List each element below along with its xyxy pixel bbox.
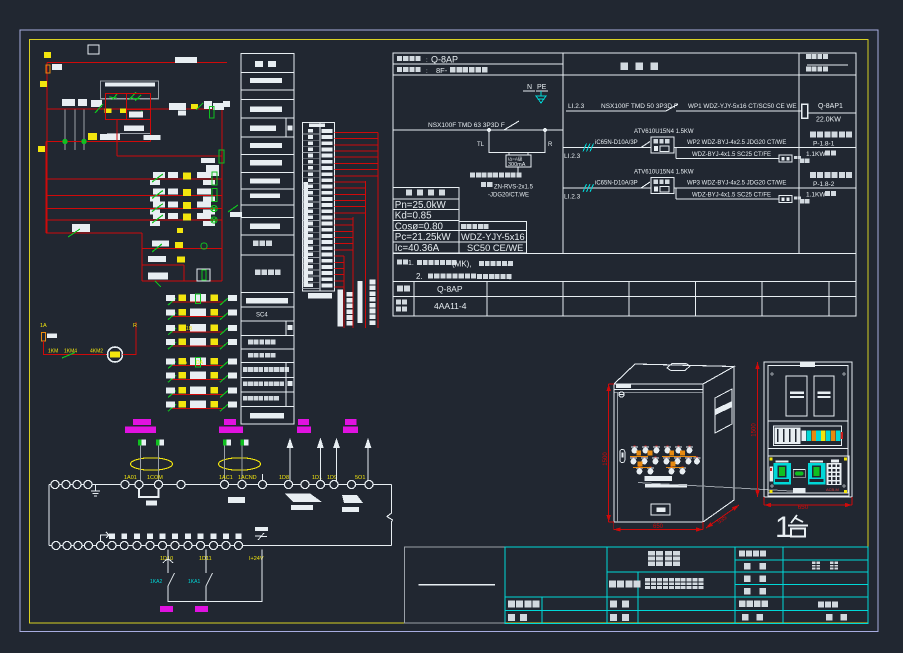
sub wire KA [168,550,262,602]
red box divider [125,93,127,119]
leader line [638,483,800,492]
legend bar5 [250,160,282,165]
switch QS1 pole A [64,109,66,150]
label design stage [739,551,766,557]
svg-text:ACB-M: ACB-M [826,487,839,492]
wire row8 [142,248,222,250]
U link group1 [139,489,159,498]
wire left red bus L1 [46,63,48,233]
cable tag text vertical 1 [347,292,353,326]
panel inner [768,366,848,494]
svg-text:WP2 WDZ-BYJ-4x2.5 JDG20 CT/WE: WP2 WDZ-BYJ-4x2.5 JDG20 CT/WE [687,140,786,146]
tag small yellow row7 [177,228,183,233]
label mid b [144,135,161,140]
wire red bus V1 [377,133,379,329]
legend bar7 [250,193,280,198]
svg-text:1500: 1500 [752,423,758,437]
load name AHU-1 [810,132,852,138]
svg-text:1B: 1B [186,326,193,332]
table bottom divider [486,282,488,317]
red box inner line [126,109,150,111]
calc box [393,188,526,253]
label 1AL [52,64,62,70]
label in box E1 [129,112,143,118]
svg-text:LI.2.3: LI.2.3 [564,194,581,201]
dim cabinet depth [706,505,739,528]
value org [818,602,838,608]
legend text spec [255,269,280,275]
residual relay box [506,155,531,167]
fuse link green [212,172,217,185]
legend subcolumn [285,118,287,137]
arrow bend sym [101,532,110,541]
din band inner [774,426,842,446]
cabinet front face [614,384,703,522]
terminal circles rail lower [52,542,243,550]
svg-text:1KM4: 1KM4 [64,349,77,355]
fuse in device box [202,270,206,280]
shunt wiring [489,130,545,155]
label page no [826,614,847,621]
bus rail upper [49,484,392,486]
node green row1 b [82,139,86,143]
svg-text:1500: 1500 [603,452,609,466]
fuse link green F1 [210,106,215,118]
label reviewed [508,614,527,621]
label right of bus [230,212,242,217]
cable tag text vertical 2 [369,280,375,325]
table bottom divider [562,282,564,317]
contact slash A3 [196,103,203,110]
terminal strip header [309,124,325,128]
hdr right col r2 [806,67,828,72]
wire WP1 a [566,110,666,112]
front seam 1 [614,388,703,390]
svg-text:22.0KW: 22.0KW [816,117,841,124]
quantity glyph tai [788,515,808,537]
wire row A [47,108,222,110]
svg-text:N: N [527,84,532,91]
contact slash fan feed [62,353,75,359]
terminal block 1 [156,440,164,446]
ground tick green [155,281,161,287]
wire drop row9 [183,265,185,281]
svg-text:1A: 1A [40,323,47,329]
value electrical [812,562,838,570]
wire fan right [123,322,137,355]
load name AHU-2 [810,172,852,178]
legend bar1 [250,78,282,83]
front top strip [616,384,631,389]
svg-text:1D11: 1D11 [199,556,212,562]
legend text fanctrl [243,382,284,387]
wire fan branch row 4 [172,345,224,347]
svg-text:4KM2: 4KM2 [90,349,103,355]
svg-text:1: 1 [775,511,792,544]
din breakers white [775,428,801,445]
svg-text:R: R [548,142,553,148]
group2 label [228,497,245,503]
contact slash row7 [68,229,80,237]
legend text ahu [243,367,289,372]
svg-text:iC65N-D10A/3P: iC65N-D10A/3P [595,140,638,146]
bus rail lower [49,545,392,547]
row label 2a [396,300,407,305]
node green row1 a [63,139,67,143]
table row line 1 [393,281,856,283]
legend column outline [241,54,294,424]
wire row2 drop [116,120,118,156]
svg-text:1D9: 1D9 [327,475,337,481]
nameplate inner [657,508,666,512]
svg-text:650: 650 [653,524,664,530]
svg-text:LI.2.3: LI.2.3 [568,103,585,110]
wire red bus V3 [352,217,354,328]
fan motor M1 circle [108,347,123,362]
label module 1 [125,419,156,433]
hop arc [163,560,173,564]
dim panel height [755,362,759,497]
svg-text:ATV610U15N4 1.5KW: ATV610U15N4 1.5KW [634,129,694,135]
svg-text:1.1KW: 1.1KW [806,151,826,158]
feeder circuit WP2 [0,0,1,1]
legend bar8 [250,223,280,228]
legend bar10 [250,413,284,418]
notes label [397,260,408,265]
svg-text:Kd=0.85: Kd=0.85 [395,210,432,221]
legend text auto [253,241,272,247]
wire fan branch row 5 [172,365,224,367]
svg-text:WDZ-BYJ-4x1.5 SC25 CT/FE: WDZ-BYJ-4x1.5 SC25 CT/FE [692,152,771,158]
tag yellow A3 [191,104,198,109]
tag fan valve [160,606,173,612]
dim cabinet height [607,384,611,522]
wire fan branch row 3 [172,331,224,333]
dim cabinet width [614,527,703,531]
busbar link symbol [802,104,808,118]
svg-text:300mA: 300mA [508,162,526,168]
fuse FU2 orange [42,333,46,342]
terminal tag yellow 3 [38,146,45,152]
wire red bus step [141,233,143,281]
fuse link green [212,189,217,202]
wire red drop [150,120,152,142]
terminal strip base bar [308,293,332,299]
breaker CB1 [786,376,807,416]
label project name [609,581,641,588]
label mid line [107,133,150,135]
terminal block 2 [223,440,231,446]
label drawing no [744,576,766,583]
front seam 2 [614,391,703,393]
svg-text:ATV610U15N4 1.5KW: ATV610U15N4 1.5KW [634,170,694,176]
contact T sym 1 [109,94,117,100]
tag fire alarm [195,606,208,612]
table header line full [393,74,856,76]
bus rail right link [387,485,393,546]
label row1 [100,134,120,140]
hdr main circuit title [621,63,659,71]
label mid a [124,126,144,132]
bracket zigzag 2 [342,495,363,503]
contact slash A1 [95,104,103,113]
wire right red bus L2 full [221,109,223,281]
legend title [255,61,276,67]
cable strip 2 [358,281,363,323]
tag yellow row1 [88,133,97,140]
switch 1KA2 [168,573,175,586]
side note r3 [800,199,810,203]
value project name [645,578,704,589]
incoming wire [393,129,563,131]
svg-text:Q-8AP1: Q-8AP1 [818,103,843,110]
indicator module [793,469,805,477]
wire fan branch row 8 [172,407,224,409]
lamp green circle [211,217,217,223]
svg-text:1B: 1B [212,326,219,332]
svg-text:TL: TL [477,142,485,148]
contactor KM1 [774,463,791,485]
svg-text:DA: DA [211,360,219,366]
lifting eye [667,364,690,371]
tag yellow A2 [120,109,126,114]
wire red bus V4 [343,256,345,328]
svg-text:P-1.8-1: P-1.8-1 [813,141,835,148]
wire row5 [47,208,222,210]
wire red fan feed [44,341,108,355]
terminal tag 1AL yellow [44,52,51,58]
wire row10 [142,280,222,282]
terminal strip XT outline [303,122,335,291]
svg-text:LI.2.3: LI.2.3 [564,153,581,160]
svg-text:1.1KW: 1.1KW [806,192,826,199]
terminal block 1 [138,440,146,446]
svg-text:SC50 CE/WE: SC50 CE/WE [467,243,523,253]
svg-text:NSX100F TMD 50 3P3D F: NSX100F TMD 50 3P3D F [601,103,678,110]
legend bar6 [250,179,280,184]
table header line left [393,63,563,65]
residual relay drop [517,167,519,176]
node b [543,128,546,131]
lamp green circle [211,205,217,211]
legend subcolumn2 [285,321,287,335]
wire fan branch row 7 [172,394,224,396]
svg-text:650: 650 [798,504,809,511]
red enclosure box E1 [106,93,151,119]
breaker QF1 contact [666,104,678,111]
svg-text:(MK),: (MK), [452,260,472,269]
label issuing org [739,601,768,608]
junction box top [88,45,99,54]
label module 3 [297,419,311,433]
side note r2 [800,159,810,163]
panel screws [770,372,846,488]
device box row10 [197,269,210,281]
lower section [768,456,849,496]
svg-text:1.: 1. [408,260,414,267]
lamp circle row8 [201,243,207,249]
wire row3 [47,178,222,180]
residual note cjk [470,173,521,178]
panel bottom label [793,488,806,493]
label strip 1 [645,476,673,481]
svg-text:2.: 2. [416,272,423,281]
dim panel width [764,503,852,507]
table divider v2 [798,53,800,254]
switch QS1 pole B [74,109,76,150]
label KM row7 [72,224,90,232]
svg-text:WP1 WDZ-YJY-5x16 CT/SC50 CE WE: WP1 WDZ-YJY-5x16 CT/SC50 CE WE [688,103,797,110]
feeder circuit WP3 [0,0,1,1]
U link label [146,501,157,506]
wire fan branch row 1 [172,301,224,303]
label row2 b [206,165,219,176]
svg-text:1KA1: 1KA1 [188,579,200,585]
svg-text:Pc=21.25kW: Pc=21.25kW [395,232,452,243]
wire top feeder [47,62,227,64]
bus rail left link [48,485,50,546]
din band outer [768,421,848,449]
project zone name big [648,551,680,566]
table divider v1 [562,53,564,254]
svg-text:。: 。 [509,275,514,281]
row label 2b [396,307,407,312]
wire row2 [117,155,222,157]
bracket bar 1 [291,505,313,510]
din breaker ticks [777,429,796,442]
svg-text:Cosø=0.80: Cosø=0.80 [395,221,444,232]
door handle [620,450,625,463]
svg-text:PE: PE [537,84,547,91]
label PE box [47,334,57,339]
wire WP1 out [808,112,856,114]
wire row4 [47,195,222,197]
label above lower rail [255,527,268,540]
calc title [406,190,445,196]
signature line [419,584,495,586]
breaker QF0 contact [504,121,519,130]
terminal block 2 [241,440,249,446]
wire row9 [142,264,184,266]
terminal marks above lower rail [109,534,241,540]
cabinet side face [703,367,734,523]
table bottom divider [628,282,630,317]
table notes top line [393,253,856,255]
door inner edge [617,392,619,522]
label scale [744,588,766,595]
label module 4 [343,419,358,433]
table bottom divider [828,282,830,317]
arrow signal out 1 [287,438,294,482]
svg-text:Q-8AP: Q-8AP [431,55,458,65]
nameplate [651,504,670,515]
dist line label [461,224,489,229]
arrow signal out 2 [317,438,324,482]
label row2 a [201,158,215,163]
contact T sym 3 [133,111,142,117]
arrow signal out 4 [365,438,372,482]
hdr label box no [397,56,421,61]
terminal tag yellow 2 [40,81,47,87]
svg-text:1A: 1A [181,360,188,366]
breaker CB2 [814,376,834,416]
wire fan branch row 6 [172,378,224,380]
svg-text:Pn=25.0kW: Pn=25.0kW [395,200,447,211]
ground sym under rail [91,485,100,497]
legend empty box [405,547,506,623]
svg-text:-JDG20/CT.WE: -JDG20/CT.WE [488,193,529,199]
legend text duct [243,396,279,401]
row label 1 [397,286,410,292]
terminal cells colored [802,431,844,441]
ground symbol PE [536,91,546,103]
bracket bar 2 [342,507,359,512]
title block grid [505,547,868,624]
cable strip 1 [337,290,343,327]
cable note prefix [481,182,492,187]
hdr right col r1 [806,54,828,59]
label strip 2 [645,484,687,488]
contact slash A2 [129,92,136,100]
svg-text:WDZ-YJY-5x16: WDZ-YJY-5x16 [461,232,525,242]
switch 1KA1 [206,573,213,586]
terminal strip rows [303,129,333,288]
meter box PJ outline [101,81,159,99]
wire WP1 b [676,110,802,112]
legend bar4 [250,143,282,148]
svg-text:DA: DA [196,360,204,366]
right col line r3 [799,187,856,189]
legend bar2 [250,107,282,112]
svg-text:1KM: 1KM [48,349,58,355]
table bottom divider [761,282,763,317]
indicator knobs cluster [630,445,700,474]
panel top tag [800,363,815,368]
side vent [715,389,732,433]
CT coil 2 ellipse [219,458,261,470]
wire row7 [46,232,142,234]
label module 2 [219,419,243,433]
svg-text:WP3 WDZ-BYJ-4x2.5 JDG20 CT/WE: WP3 WDZ-BYJ-4x2.5 JDG20 CT/WE [687,181,786,187]
label total pages [742,614,763,621]
yellow corner dots [769,457,847,493]
table bottom divider [413,282,415,317]
breaker CB1 bars [790,392,804,394]
legend text row a [248,340,276,345]
bracket zigzag 1 [285,494,322,503]
svg-text:WDZ-BYJ-4x1.5 SC25 CT/FE: WDZ-BYJ-4x1.5 SC25 CT/FE [692,193,771,199]
label checked [610,614,629,621]
svg-text:4AA11-4: 4AA11-4 [434,301,467,311]
svg-text:8F-: 8F- [436,66,448,75]
node a [487,128,490,131]
svg-text:1COM: 1COM [147,475,163,481]
wire row6 [47,219,222,221]
wire red bus V2 [365,181,367,328]
table bottom divider [695,282,697,317]
wire row B [46,141,151,143]
hdr value name cjk [450,67,487,72]
svg-text:Ic=40.36A: Ic=40.36A [395,243,440,254]
terminal strip highlight bar [304,182,309,287]
svg-text:P-1.8-2: P-1.8-2 [813,181,835,188]
contactor KM2 [808,463,825,485]
legend bar9 [246,298,288,303]
left din tiny [769,466,773,481]
fuse link green row2 [219,150,224,163]
svg-text:NSX100F TMD 63 3P3D F: NSX100F TMD 63 3P3D F [428,122,505,129]
label feeder text [175,57,197,63]
